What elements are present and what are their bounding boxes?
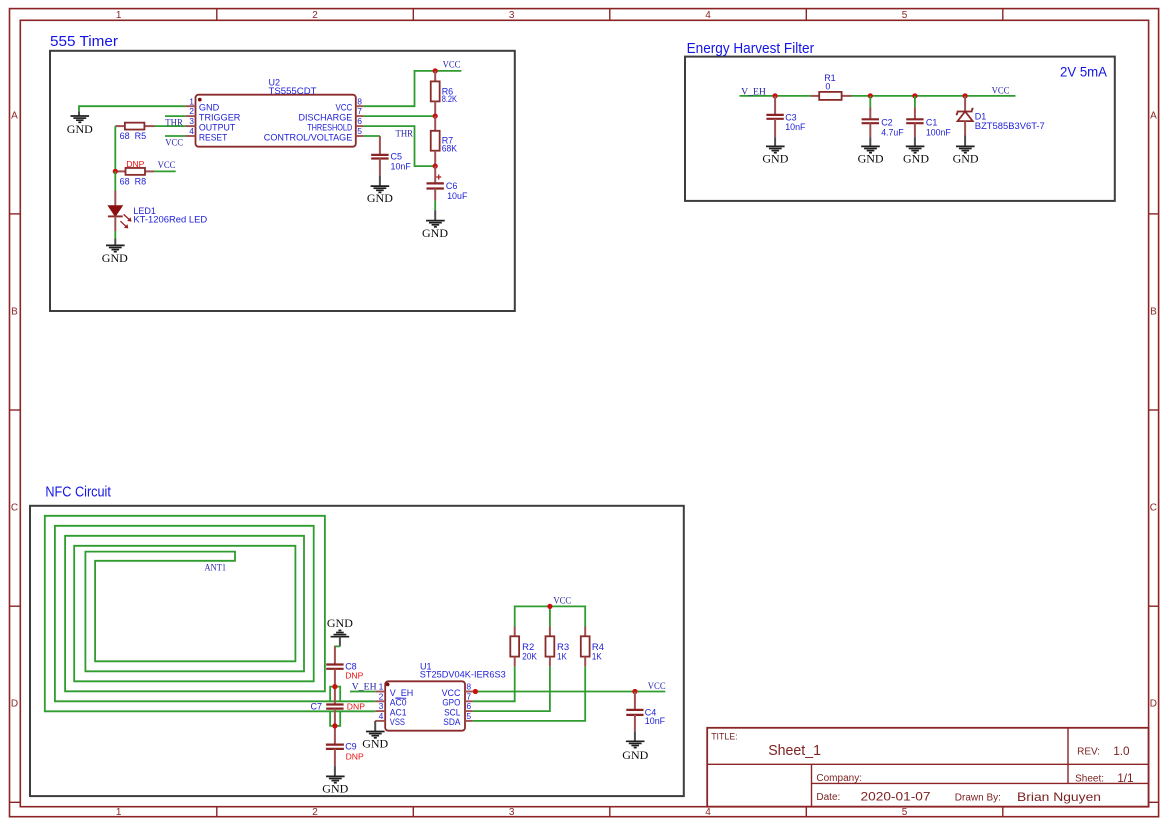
svg-text:1.0: 1.0 bbox=[1113, 744, 1130, 758]
svg-text:8.2K: 8.2K bbox=[442, 94, 457, 104]
svg-text:5: 5 bbox=[902, 10, 908, 21]
LED LED1 bbox=[108, 191, 208, 232]
junction C3 bbox=[773, 93, 778, 98]
svg-text:Sheet:: Sheet: bbox=[1075, 774, 1104, 785]
svg-text:TRIGGER: TRIGGER bbox=[199, 112, 241, 122]
svg-text:D: D bbox=[11, 699, 18, 710]
wire SDA to R4 bbox=[473, 666, 585, 721]
U1 pin 3 AC1 bbox=[375, 701, 406, 717]
wire bypass around C7 top bbox=[330, 687, 340, 702]
svg-text:ST25DV04K-IER6S3: ST25DV04K-IER6S3 bbox=[420, 669, 506, 679]
U2 pin 3 OUTPUT bbox=[185, 116, 235, 132]
wire U2 pin5 to C5 bbox=[364, 135, 380, 137]
wire U2 pin8 to VCC rail bbox=[364, 71, 462, 106]
svg-text:GND: GND bbox=[903, 151, 929, 165]
U1 pin 7 GPO bbox=[442, 691, 473, 707]
svg-text:C2: C2 bbox=[881, 118, 893, 128]
svg-text:20K: 20K bbox=[522, 651, 537, 662]
svg-text:5: 5 bbox=[466, 711, 471, 721]
svg-text:GND: GND bbox=[422, 226, 448, 240]
junction R6/R7/pin7 bbox=[433, 114, 438, 119]
svg-text:6: 6 bbox=[466, 701, 471, 711]
svg-text:R5: R5 bbox=[135, 131, 147, 141]
node VCC label right NFC bbox=[648, 682, 666, 692]
svg-text:68K: 68K bbox=[442, 144, 457, 154]
svg-text:THR: THR bbox=[396, 130, 414, 140]
svg-text:TS555CDT: TS555CDT bbox=[269, 86, 318, 96]
ground flag C9 bbox=[322, 766, 348, 795]
svg-text:R8: R8 bbox=[135, 176, 147, 186]
wire pin4 RESET VCC stub bbox=[165, 135, 185, 137]
svg-text:3: 3 bbox=[509, 807, 515, 818]
svg-text:B: B bbox=[11, 307, 18, 318]
svg-text:DNP: DNP bbox=[345, 670, 363, 680]
svg-text:4: 4 bbox=[705, 807, 711, 818]
svg-text:Sheet_1: Sheet_1 bbox=[768, 742, 821, 759]
svg-text:GND: GND bbox=[322, 781, 348, 795]
wire U1 pin8 VCC rail right bbox=[473, 691, 665, 693]
U2 pin 8 VCC bbox=[336, 96, 364, 112]
ruler ticks right bbox=[1149, 214, 1159, 802]
svg-text:THR: THR bbox=[165, 119, 183, 129]
svg-text:C6: C6 bbox=[446, 181, 458, 191]
svg-text:3: 3 bbox=[379, 701, 384, 711]
svg-text:AC1: AC1 bbox=[390, 707, 407, 717]
svg-text:GND: GND bbox=[367, 191, 393, 205]
wire C6 to ground bbox=[434, 201, 436, 211]
op-amp timer U2 body bbox=[196, 77, 356, 146]
svg-text:1: 1 bbox=[116, 807, 122, 818]
svg-text:CONTROL/VOLTAGE: CONTROL/VOLTAGE bbox=[264, 132, 353, 142]
title block Sheet number bbox=[1075, 771, 1134, 785]
svg-text:A: A bbox=[1150, 111, 1157, 122]
555 Timer section title bbox=[50, 33, 118, 50]
svg-text:OUTPUT: OUTPUT bbox=[199, 122, 236, 132]
wire U2 pin7 DISCHARGE to R6/R7 bbox=[364, 115, 436, 117]
svg-text:4: 4 bbox=[189, 126, 194, 136]
U1 pin 2 AC0 bbox=[375, 691, 406, 707]
wire pin1 GND net bbox=[79, 106, 185, 111]
svg-text:V_EH: V_EH bbox=[741, 88, 766, 98]
svg-text:VCC: VCC bbox=[553, 597, 571, 607]
junction U1 pin8 bbox=[473, 689, 478, 694]
junction C2 bbox=[868, 93, 873, 98]
svg-text:0: 0 bbox=[825, 82, 830, 92]
U2 pin 7 DISCHARGE bbox=[299, 106, 364, 122]
wire U2 pin6 THRESHOLD to R7/C6 junction bbox=[364, 126, 436, 166]
node VCC label at R8 bbox=[158, 161, 176, 171]
svg-text:DNP: DNP bbox=[126, 159, 144, 169]
svg-text:VCC: VCC bbox=[158, 161, 176, 171]
svg-text:100nF: 100nF bbox=[926, 128, 951, 138]
svg-text:GND: GND bbox=[67, 122, 93, 136]
ground flag C5 bbox=[367, 175, 393, 205]
capacitor C2 bbox=[862, 108, 904, 138]
svg-text:VCC: VCC bbox=[992, 86, 1010, 96]
svg-text:VCC: VCC bbox=[442, 688, 461, 698]
NFC Circuit section title bbox=[45, 484, 111, 501]
U2 pin 6 THRESHOLD bbox=[307, 116, 363, 132]
svg-text:THRESHOLD: THRESHOLD bbox=[307, 122, 352, 132]
svg-text:68: 68 bbox=[120, 131, 130, 141]
node VCC label energy bbox=[992, 86, 1010, 96]
svg-text:AC0: AC0 bbox=[390, 698, 407, 708]
wire ground jog to C8 bbox=[335, 646, 340, 648]
resistor R2 bbox=[510, 627, 537, 667]
svg-text:1: 1 bbox=[189, 96, 194, 106]
resistor R8 bbox=[115, 159, 154, 187]
ruler column numbers top bbox=[116, 10, 908, 21]
NFC Circuit section box bbox=[30, 506, 684, 796]
svg-text:SDA: SDA bbox=[443, 717, 460, 727]
U1 pin 8 VCC bbox=[442, 682, 473, 698]
capacitor C6 polarized bbox=[427, 166, 468, 201]
svg-text:DNP: DNP bbox=[346, 751, 364, 761]
svg-text:1K: 1K bbox=[557, 651, 567, 662]
ground flag C6 bbox=[422, 211, 448, 240]
wire SCL to R3 bbox=[473, 666, 550, 711]
ruler ticks top bbox=[217, 9, 1003, 21]
svg-text:GND: GND bbox=[102, 251, 128, 265]
junction VCC/R3 top bbox=[547, 604, 552, 609]
svg-text:555 Timer: 555 Timer bbox=[50, 33, 118, 50]
svg-text:GND: GND bbox=[199, 103, 220, 113]
svg-text:GND: GND bbox=[622, 748, 648, 762]
svg-text:GPO: GPO bbox=[442, 698, 460, 708]
svg-text:7: 7 bbox=[357, 106, 362, 116]
svg-text:GND: GND bbox=[327, 616, 353, 630]
title block Company bbox=[816, 773, 862, 784]
wire GPO to R2 bbox=[473, 666, 515, 701]
svg-text:BZT585B3V6T-7: BZT585B3V6T-7 bbox=[975, 121, 1045, 131]
svg-text:Drawn By:: Drawn By: bbox=[955, 792, 1001, 803]
U1 pin 4 VSS bbox=[375, 711, 405, 727]
svg-text:GND: GND bbox=[858, 151, 884, 165]
ground flag C1 bbox=[903, 137, 929, 165]
junction R5/R8/LED bbox=[113, 169, 118, 174]
svg-text:C3: C3 bbox=[785, 113, 797, 123]
svg-text:D: D bbox=[1150, 699, 1157, 710]
title block Date row bbox=[816, 790, 1101, 804]
svg-text:VCC: VCC bbox=[165, 138, 183, 148]
node V_EH label bbox=[741, 88, 766, 98]
svg-text:DISCHARGE: DISCHARGE bbox=[299, 112, 353, 122]
capacitor C4 bbox=[626, 692, 665, 732]
svg-text:8: 8 bbox=[466, 682, 471, 692]
svg-text:C5: C5 bbox=[391, 151, 403, 161]
svg-text:3: 3 bbox=[189, 116, 194, 126]
svg-text:1/1: 1/1 bbox=[1117, 771, 1133, 785]
svg-text:VCC: VCC bbox=[648, 682, 666, 692]
svg-text:Date:: Date: bbox=[816, 792, 840, 803]
svg-text:8: 8 bbox=[357, 96, 362, 106]
svg-text:68: 68 bbox=[120, 176, 130, 186]
svg-text:10nF: 10nF bbox=[645, 716, 666, 726]
wire VCC top rail NFC bbox=[515, 606, 586, 626]
svg-text:SCL: SCL bbox=[444, 707, 460, 717]
svg-text:V_EH: V_EH bbox=[390, 688, 413, 698]
svg-text:1: 1 bbox=[116, 10, 122, 21]
wire pin3 OUTPUT to R5 bbox=[155, 125, 186, 127]
svg-text:6: 6 bbox=[357, 116, 362, 126]
svg-text:GND: GND bbox=[762, 151, 788, 165]
ruler ticks bottom bbox=[217, 807, 1003, 817]
IC U1 body bbox=[385, 661, 505, 730]
U1 pin 5 SDA bbox=[443, 711, 473, 727]
svg-text:10nF: 10nF bbox=[391, 161, 412, 171]
svg-text:VCC: VCC bbox=[336, 103, 353, 113]
ground flag LED1 bbox=[102, 238, 128, 265]
U1 pin 1 V_EH bbox=[375, 682, 413, 698]
ground flag D1 bbox=[953, 136, 979, 166]
resistor R1 bbox=[811, 73, 852, 100]
svg-text:GND: GND bbox=[362, 737, 388, 751]
svg-text:C1: C1 bbox=[926, 118, 938, 128]
ground flag C2 bbox=[858, 137, 884, 165]
svg-text:4.7uF: 4.7uF bbox=[881, 128, 904, 138]
wire V_EH stub to U1 pin1 bbox=[350, 691, 375, 693]
svg-text:2: 2 bbox=[312, 807, 318, 818]
resistor R5 bbox=[115, 123, 154, 141]
capacitor C7 bbox=[311, 702, 366, 745]
svg-text:C7: C7 bbox=[311, 702, 323, 712]
capacitor C8 bbox=[326, 646, 363, 704]
ground flag above C8 inverted bbox=[327, 616, 353, 646]
Energy Harvest Filter section box bbox=[685, 57, 1115, 201]
antenna coil ANT1 bbox=[45, 516, 375, 712]
ground flag U1 VSS bbox=[362, 721, 388, 751]
wire pin2 THR stub bbox=[165, 115, 185, 117]
U1 pin 6 SCL bbox=[444, 701, 473, 717]
svg-text:7: 7 bbox=[466, 691, 471, 701]
svg-text:5: 5 bbox=[902, 807, 908, 818]
resistor R7 bbox=[431, 116, 457, 166]
node VCC label at U2 pin4 bbox=[165, 138, 183, 148]
wire R5 to R8 junction vertical bbox=[114, 126, 116, 171]
junction C8/C7 top bbox=[332, 684, 337, 689]
node VCC label top NFC bbox=[553, 597, 571, 607]
svg-text:3: 3 bbox=[509, 10, 515, 21]
title block frame bbox=[707, 728, 1148, 807]
title block sheet title Sheet_1 bbox=[768, 742, 821, 759]
svg-text:VCC: VCC bbox=[443, 61, 461, 71]
svg-text:10nF: 10nF bbox=[785, 122, 806, 132]
svg-text:GND: GND bbox=[953, 151, 979, 165]
title block REV bbox=[1077, 744, 1130, 758]
svg-text:ANT1: ANT1 bbox=[205, 564, 227, 574]
ruler row letters left bbox=[11, 111, 18, 710]
svg-text:RESET: RESET bbox=[199, 132, 228, 142]
svg-text:1K: 1K bbox=[592, 651, 602, 662]
junction C4 bbox=[632, 689, 637, 694]
junction R7/C6/THR bbox=[433, 164, 438, 169]
2V 5mA rating note bbox=[1060, 64, 1108, 80]
node THR label right side bbox=[396, 130, 414, 140]
svg-text:C9: C9 bbox=[345, 741, 357, 751]
svg-text:2: 2 bbox=[312, 10, 318, 21]
555 Timer section box bbox=[50, 51, 515, 311]
wire junction to LED1 bbox=[114, 171, 116, 190]
svg-text:2: 2 bbox=[189, 106, 194, 116]
title block TITLE label bbox=[711, 732, 737, 742]
svg-text:KT-1206Red LED: KT-1206Red LED bbox=[133, 214, 207, 224]
U2 pin 2 TRIGGER bbox=[185, 106, 240, 122]
capacitor C1 bbox=[906, 108, 951, 138]
svg-text:2V 5mA: 2V 5mA bbox=[1060, 64, 1108, 80]
ground flag C4 bbox=[622, 731, 648, 762]
wire C1 stub bbox=[914, 96, 916, 108]
svg-text:C: C bbox=[11, 503, 18, 514]
ruler ticks left bbox=[10, 214, 21, 802]
junction VCC/R6 bbox=[433, 68, 438, 73]
U2 pin 1 GND bbox=[185, 96, 219, 112]
capacitor C3 bbox=[766, 96, 806, 137]
junction C7/C9 bottom bbox=[332, 723, 337, 728]
svg-text:4: 4 bbox=[705, 10, 711, 21]
svg-text:2020-01-07: 2020-01-07 bbox=[861, 790, 931, 804]
svg-text:V_EH: V_EH bbox=[352, 683, 377, 693]
ground flag U2 pin1 bbox=[67, 111, 93, 136]
svg-text:2: 2 bbox=[379, 691, 384, 701]
U2 pin 5 CONTROL/VOLTAGE bbox=[264, 126, 364, 142]
svg-text:DNP: DNP bbox=[347, 702, 365, 712]
ground flag C3 bbox=[762, 137, 788, 165]
resistor R3 bbox=[546, 627, 570, 667]
junction D1 bbox=[963, 93, 968, 98]
svg-text:VSS: VSS bbox=[390, 717, 405, 727]
wire bypass around C7 bottom bbox=[330, 711, 340, 726]
svg-text:1: 1 bbox=[379, 682, 384, 692]
wire R8 to VCC stub bbox=[154, 170, 176, 172]
capacitor C9 bbox=[326, 741, 364, 766]
wire V_EH to R1 bbox=[740, 95, 811, 97]
node THR label at U2 pin2 bbox=[165, 119, 183, 129]
Energy Harvest Filter section title bbox=[687, 40, 815, 57]
svg-text:C: C bbox=[1150, 503, 1157, 514]
svg-text:5: 5 bbox=[357, 126, 362, 136]
svg-text:A: A bbox=[11, 111, 18, 122]
node V_EH label NFC bbox=[352, 683, 377, 693]
svg-text:Energy Harvest Filter: Energy Harvest Filter bbox=[687, 40, 815, 57]
zener diode D1 bbox=[956, 96, 1045, 136]
ruler column numbers bottom bbox=[116, 807, 908, 818]
svg-text:B: B bbox=[1150, 307, 1157, 318]
svg-text:10uF: 10uF bbox=[447, 191, 468, 201]
resistor R6 bbox=[431, 71, 457, 116]
wire C2 stub bbox=[869, 96, 871, 108]
capacitor C5 bbox=[371, 136, 411, 175]
svg-text:Company:: Company: bbox=[816, 773, 862, 784]
svg-text:REV:: REV: bbox=[1077, 747, 1100, 758]
svg-text:NFC Circuit: NFC Circuit bbox=[45, 484, 111, 501]
wire R1 to VCC bbox=[852, 95, 1016, 97]
svg-text:4: 4 bbox=[379, 711, 384, 721]
svg-text:Brian Nguyen: Brian Nguyen bbox=[1017, 790, 1101, 804]
svg-text:TITLE:: TITLE: bbox=[711, 732, 737, 742]
wire LED1 to ground bbox=[114, 231, 116, 238]
ruler row letters right bbox=[1150, 111, 1157, 710]
node VCC label top right 555 bbox=[443, 61, 461, 71]
U2 pin 4 RESET bbox=[185, 126, 227, 142]
resistor R4 bbox=[581, 627, 604, 667]
junction C1 bbox=[912, 93, 917, 98]
